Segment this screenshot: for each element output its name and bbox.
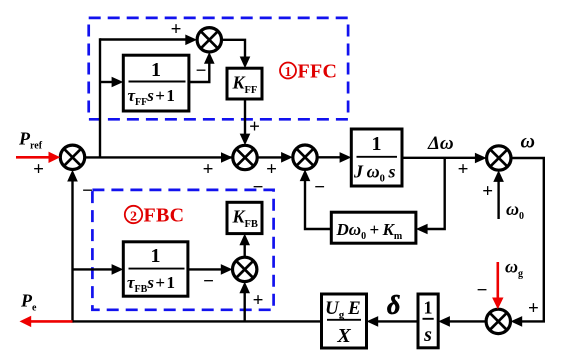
summing junction S6	[486, 309, 510, 333]
wire omega0 into S5	[493, 170, 504, 219]
block B3 1/(J w0 s)	[351, 129, 402, 186]
svg-text:2: 2	[130, 210, 137, 225]
svg-text:−: −	[82, 181, 93, 202]
svg-text:+: +	[528, 298, 539, 319]
svg-text:s: s	[423, 324, 432, 346]
svg-text:−: −	[314, 177, 325, 198]
wire FFC input vertical branch	[99, 38, 101, 157]
wire B5 out to S7	[188, 264, 233, 275]
svg-text:ω: ω	[521, 131, 535, 153]
svg-text:X: X	[336, 325, 351, 347]
summing junction S3	[233, 145, 257, 169]
wire P_e vertical up into S2	[67, 170, 78, 323]
svg-text:FFC: FFC	[298, 61, 338, 83]
wire omega_g red input arrow	[492, 262, 503, 309]
wire delta-omega branch down into B4	[416, 158, 445, 235]
wire B3 out to S5	[402, 153, 487, 164]
svg-text:+: +	[203, 159, 214, 180]
wire S6 out to 1/s	[438, 316, 486, 327]
wire P_e red output arrow	[20, 316, 73, 327]
wire B4 out up into S4	[300, 169, 332, 229]
summing junction S4	[293, 145, 317, 169]
summing junction S7	[233, 257, 257, 281]
svg-text:1: 1	[285, 64, 292, 79]
wire B1 out up into S1	[189, 52, 215, 82]
wire P_ref red input arrow	[16, 152, 60, 163]
block B1 1/(tau_FF s+1)	[123, 55, 189, 111]
block B8 1/s	[418, 294, 438, 348]
svg-text:−: −	[203, 271, 214, 292]
svg-text:+: +	[458, 159, 469, 180]
wire S5 out right down into S6	[511, 158, 544, 327]
label (2)FBC	[125, 205, 185, 227]
svg-text:τFBs + 1: τFBs + 1	[127, 273, 175, 295]
wire S3 to S4	[257, 152, 293, 163]
svg-text:1: 1	[372, 133, 382, 155]
svg-text:Δω: Δω	[427, 133, 454, 154]
svg-text:−: −	[477, 280, 488, 301]
svg-text:J ω0 s: J ω0 s	[353, 162, 395, 185]
svg-text:−: −	[196, 61, 207, 82]
block B4 D w0 + K m	[331, 212, 416, 243]
wire FBC input into B5	[73, 264, 124, 275]
block B5 1/(tau_FB s+1)	[123, 242, 188, 296]
summing junction S5	[487, 146, 511, 170]
wire K_FF out down into S3	[240, 99, 251, 145]
wire into B1	[100, 77, 123, 88]
wire B7 out left bottom bus	[73, 320, 322, 322]
wire 1/s out to B7	[367, 316, 419, 327]
svg-text:τFFs + 1: τFFs + 1	[128, 86, 175, 108]
wire branch up into S7	[239, 282, 250, 322]
svg-text:1: 1	[424, 298, 433, 318]
summing junction S2	[60, 145, 84, 169]
svg-text:+: +	[482, 181, 493, 202]
wire S7 up into K_FB	[239, 234, 250, 258]
svg-text:−: −	[253, 177, 264, 198]
wire S1 out down into K_FF	[222, 40, 251, 68]
svg-text:+: +	[33, 159, 44, 180]
wire top into S1	[100, 35, 197, 46]
block K_FF	[227, 68, 262, 99]
svg-text:1: 1	[151, 59, 161, 81]
FBC dashed box	[92, 190, 273, 310]
wire S4 to B3	[317, 152, 351, 163]
svg-text:Dω0 + Km: Dω0 + Km	[336, 220, 403, 242]
svg-text:+: +	[171, 19, 182, 40]
svg-text:FBC: FBC	[144, 205, 185, 227]
label (1)FFC	[280, 61, 337, 83]
svg-text:+: +	[253, 290, 264, 311]
FFC dashed box	[89, 18, 348, 119]
wire S2 to S3	[85, 152, 233, 163]
svg-text:+: +	[266, 159, 277, 180]
summing junction S1	[197, 28, 221, 52]
svg-text:+: +	[249, 117, 260, 138]
svg-text:δ: δ	[387, 291, 400, 320]
block K_FB	[227, 202, 262, 233]
block B7 UgE/X	[322, 294, 367, 348]
svg-text:1: 1	[151, 245, 161, 267]
